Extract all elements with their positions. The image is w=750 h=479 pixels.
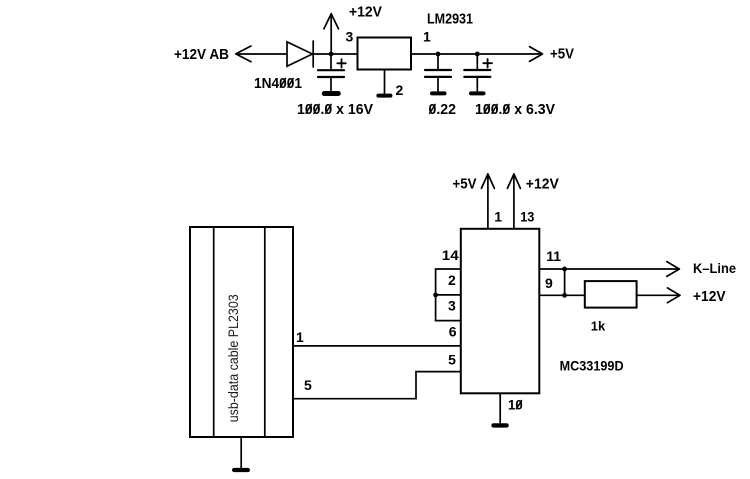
svg-text:1: 1 — [494, 208, 502, 224]
diode D1 1N4001 — [287, 41, 313, 67]
svg-text:5: 5 — [448, 352, 456, 368]
svg-text:14: 14 — [442, 247, 459, 263]
node junction C2 — [436, 52, 441, 57]
wire — [236, 53, 287, 55]
wire IC pin3 stub — [436, 320, 461, 322]
svg-text:+5V: +5V — [453, 176, 477, 193]
node junction diode/cap/regulator — [329, 52, 334, 57]
capacitor C2 0.22 — [425, 54, 451, 77]
svg-text:+12V: +12V — [526, 176, 559, 193]
wire vertical tie pins 14-2-3 — [435, 269, 437, 321]
svg-text:2: 2 — [448, 272, 456, 288]
ground — [469, 77, 486, 96]
ground usb connector — [232, 437, 250, 472]
svg-text:1k: 1k — [591, 319, 606, 334]
wire IC pin14 stub — [436, 268, 461, 270]
ground regulator pin2 — [376, 70, 392, 98]
svg-text:1: 1 — [296, 329, 304, 345]
wire usb pin5 to IC pin5 — [293, 372, 461, 399]
svg-text:K–Line: K–Line — [693, 260, 736, 276]
arrowhead up +12V — [507, 174, 520, 188]
node junction pin2 tie — [433, 293, 438, 298]
svg-text:9: 9 — [545, 275, 553, 291]
svg-text:+12V AB: +12V AB — [174, 46, 229, 63]
wire vertical pin11 to pin9 — [564, 269, 566, 295]
wire IC pin11 K-Line — [539, 268, 679, 270]
wire IC pin2 stub — [436, 294, 461, 296]
wire resistor to +12V arrow — [637, 294, 680, 296]
svg-text:5: 5 — [304, 377, 312, 393]
capacitor C1 100.0x16V — [318, 54, 346, 77]
svg-text:3: 3 — [448, 297, 456, 313]
wire usb pin1 to IC pin6 — [293, 345, 461, 347]
svg-text:1N4001: 1N4001 — [254, 75, 302, 92]
wire — [330, 14, 332, 54]
connector J1 usb-data cable PL2303 — [190, 227, 293, 437]
wire — [411, 53, 542, 55]
arrowhead up +12V — [324, 14, 339, 29]
node junction K-Line — [562, 267, 567, 272]
arrowhead up +5V — [481, 174, 494, 188]
svg-text:1: 1 — [423, 29, 431, 45]
svg-text:LM2931: LM2931 — [427, 11, 473, 28]
svg-text:6: 6 — [449, 323, 457, 339]
wire IC pin10 down — [499, 393, 501, 423]
node junction C3 — [475, 52, 480, 57]
arrowhead right K-Line — [667, 262, 680, 277]
svg-text:+12V: +12V — [349, 4, 382, 21]
capacitor C3 100.0x6.3V — [464, 54, 492, 77]
svg-text:3: 3 — [346, 29, 354, 45]
svg-text:10: 10 — [508, 397, 523, 413]
regulator U2 LM2931 — [358, 38, 412, 70]
wire IC pin1 up — [487, 174, 489, 229]
arrowhead right +5V — [530, 47, 543, 62]
node junction pin9 — [562, 293, 567, 298]
arrowhead left +12V AB — [236, 46, 251, 62]
wire IC pin13 up — [513, 174, 515, 229]
svg-text:11: 11 — [546, 248, 561, 264]
svg-text:usb-data cable PL2303: usb-data cable PL2303 — [225, 294, 241, 422]
ground IC pin10 — [491, 423, 509, 427]
svg-text:MC33199D: MC33199D — [560, 358, 624, 374]
slashed zero overlays — [280, 78, 521, 408]
ground — [430, 77, 447, 96]
arrowhead right +12V — [667, 288, 680, 303]
wire IC pin9 to resistor — [539, 294, 585, 296]
IC U1 MC33199D — [461, 229, 540, 393]
ground — [322, 77, 341, 96]
resistor R1 1k — [585, 281, 637, 308]
svg-text:13: 13 — [520, 208, 534, 224]
svg-text:+5V: +5V — [550, 46, 574, 63]
wire — [314, 53, 358, 55]
svg-text:+12V: +12V — [693, 288, 726, 305]
svg-text:2: 2 — [396, 82, 404, 98]
